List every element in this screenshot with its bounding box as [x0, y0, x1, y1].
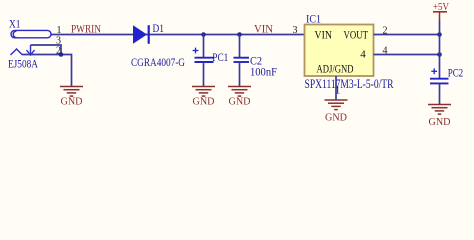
ground GND1	[60, 87, 83, 97]
PC1 plus sign	[193, 48, 199, 54]
svg-text:VIN: VIN	[254, 23, 274, 35]
wire +5V rail	[439, 21, 441, 79]
PC2 plus sign	[431, 68, 437, 74]
svg-text:ADJ/GND: ADJ/GND	[317, 61, 354, 75]
connector X1 barrel jack	[11, 30, 51, 37]
capacitor PC2	[430, 79, 449, 84]
wire pin2 to ground	[23, 55, 72, 87]
svg-text:GND: GND	[61, 95, 83, 107]
junction VIN net at C2	[237, 32, 242, 37]
svg-text:X1: X1	[9, 16, 21, 30]
svg-text:VOUT: VOUT	[344, 30, 369, 42]
power +5V	[433, 1, 449, 21]
svg-text:CGRA4007-G: CGRA4007-G	[131, 55, 185, 69]
svg-text:2: 2	[56, 46, 61, 57]
wire PC2 stub bottom	[439, 83, 441, 104]
wire PC1 stub top	[203, 35, 205, 58]
wire pin3	[31, 45, 62, 55]
svg-text:PC2: PC2	[448, 67, 464, 79]
svg-text:GND: GND	[193, 95, 215, 107]
wire PWRIN main net	[51, 34, 304, 36]
junction +5V rail at pin2	[437, 32, 442, 37]
junction X1 pin3/pin2 node	[59, 52, 64, 57]
ground GND2	[192, 87, 215, 97]
wire pin4	[374, 54, 440, 56]
junction +5V rail at pin4	[437, 52, 442, 57]
X1 switch arrow	[27, 45, 35, 55]
diode D1	[133, 25, 150, 44]
junction PWRIN net at PC1	[201, 32, 206, 37]
svg-text:100nF: 100nF	[250, 65, 277, 79]
wire C2 stub top	[239, 35, 241, 58]
svg-text:1: 1	[335, 83, 341, 97]
wire VOUT pin2	[374, 34, 440, 36]
regulator IC1 body	[305, 25, 374, 77]
sheet background	[0, 0, 474, 147]
svg-text:3: 3	[293, 25, 298, 36]
ground GND5	[428, 105, 451, 115]
svg-text:1: 1	[57, 25, 62, 36]
wire C2 stub bottom	[239, 62, 241, 86]
svg-text:GND: GND	[229, 95, 251, 107]
X1 sleeve zigzag contact	[11, 49, 23, 55]
svg-text:GND: GND	[429, 116, 451, 128]
svg-text:GND: GND	[325, 111, 347, 123]
capacitor C2	[234, 58, 250, 62]
svg-text:D1: D1	[153, 21, 165, 35]
svg-text:VIN: VIN	[315, 30, 333, 42]
capacitor PC1	[195, 58, 214, 62]
wire IC1 pin1 to ground	[335, 76, 337, 100]
svg-text:4: 4	[360, 48, 366, 60]
svg-text:IC1: IC1	[306, 14, 321, 26]
svg-text:PWRIN: PWRIN	[71, 23, 102, 35]
svg-text:PC1: PC1	[212, 52, 228, 64]
svg-text:EJ508A: EJ508A	[8, 56, 38, 70]
wire PC1 stub bottom	[203, 62, 205, 86]
svg-text:SPX1117M3-L-5-0/TR: SPX1117M3-L-5-0/TR	[305, 76, 394, 91]
ground GND4	[325, 100, 348, 110]
ground GND3	[228, 87, 251, 97]
